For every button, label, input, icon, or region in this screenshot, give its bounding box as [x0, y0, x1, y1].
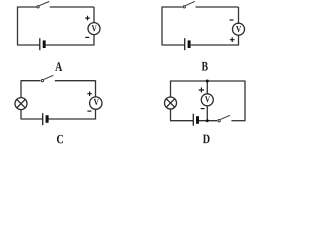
wire D top [171, 80, 246, 82]
switch S3 blade (circuit C) [44, 75, 54, 79]
wire D voltmeter branch lower [206, 106, 208, 121]
battery short thick plate (circuit B) [188, 40, 191, 48]
voltmeter V circle (circuit D) [201, 94, 213, 106]
voltmeter minus sign (circuit A) [85, 36, 89, 38]
voltmeter V circle (circuit C) [90, 97, 102, 109]
label D [203, 135, 210, 144]
switch S2 blade (circuit B) [186, 1, 195, 5]
voltmeter minus sign (circuit D) [201, 108, 205, 110]
switch S3 pivot (circuit C) [41, 79, 43, 81]
wire B bottom-left segment [162, 44, 185, 46]
wire B left side [161, 7, 163, 46]
wire D bottom-left segment [170, 120, 193, 122]
voltmeter V circle (circuit B) [233, 23, 245, 35]
voltmeter plus sign (circuit D) [199, 88, 204, 93]
wire B top-left segment [162, 6, 183, 8]
battery short thick plate (circuit D) [196, 116, 199, 124]
wire B bottom-right segment [191, 44, 239, 46]
wire D left side lower [170, 109, 172, 121]
wire C left side lower [20, 110, 22, 119]
wire D left side upper [170, 81, 172, 98]
wire C top-right segment [55, 80, 96, 82]
switch S2 pivot (circuit B) [183, 6, 185, 8]
wire A left side [17, 7, 19, 46]
wire A right side lower [93, 35, 95, 46]
voltmeter letter V (circuit D) [205, 96, 210, 102]
wire A bottom-left segment [17, 44, 40, 46]
voltmeter letter V (circuit C) [94, 99, 99, 105]
wire B right side upper [238, 7, 240, 23]
battery short thick plate (circuit C) [46, 115, 49, 123]
switch S4 blade (circuit D) [220, 115, 230, 119]
wire D right side [244, 81, 246, 122]
voltmeter plus sign (circuit A) [85, 16, 90, 21]
switch S1 blade (circuit A) [39, 2, 49, 6]
switch S4 pivot (circuit D) [218, 120, 220, 122]
wire C right side upper [95, 80, 97, 97]
lamp L1 circle (circuit C) [15, 98, 27, 110]
voltmeter plus sign (circuit B) [230, 37, 235, 42]
switch S1 pivot (circuit A) [37, 6, 39, 8]
lamp L1 cross (circuit C) [17, 99, 25, 107]
wire C bottom-left segment [21, 118, 43, 120]
wire C right side lower [95, 109, 97, 120]
battery long plate (circuit A) [39, 38, 41, 50]
battery long plate (circuit D) [192, 114, 194, 126]
voltmeter minus sign (circuit B) [230, 19, 234, 21]
lamp L2 cross (circuit D) [166, 99, 174, 107]
wire B right side lower [238, 35, 240, 45]
junction dot bottom (circuit D) [206, 119, 209, 122]
battery short thick plate (circuit A) [43, 40, 46, 48]
label C [57, 135, 63, 144]
wire A right side upper [93, 7, 95, 23]
wire B top-right segment [196, 6, 239, 8]
wire C top-left segment [21, 80, 40, 82]
wire D bottom-middle segment [199, 120, 217, 122]
label B [202, 62, 208, 71]
voltmeter letter V (circuit A) [92, 25, 97, 31]
voltmeter minus sign (circuit C) [87, 110, 91, 112]
wire D bottom-right segment [231, 120, 245, 122]
wire A top-left segment [18, 6, 37, 8]
voltmeter plus sign (circuit C) [87, 91, 92, 96]
wire A bottom-right segment [46, 44, 94, 46]
label A [55, 62, 62, 71]
battery long plate (circuit C) [42, 113, 44, 125]
voltmeter letter V (circuit B) [236, 26, 241, 32]
wire D voltmeter branch upper [206, 81, 208, 94]
lamp L2 circle (circuit D) [165, 97, 177, 109]
battery long plate (circuit B) [184, 38, 186, 50]
wire C bottom-right segment [49, 118, 96, 120]
voltmeter V circle (circuit A) [88, 23, 100, 35]
wire A top-right segment [50, 6, 94, 8]
wire C left side upper [20, 80, 22, 97]
junction dot top (circuit D) [206, 80, 209, 83]
